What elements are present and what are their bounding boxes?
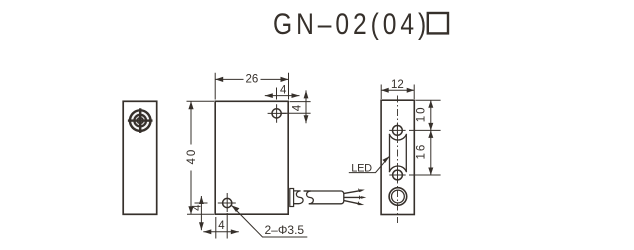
dim 4 left line with outward arrows [199, 196, 204, 230]
LED leader line [349, 156, 390, 172]
svg-text:LED: LED [351, 162, 372, 174]
right (rear) view body outline [381, 100, 414, 214]
cable strain relief S-curves [294, 191, 314, 204]
svg-text:12: 12 [391, 79, 404, 91]
sensing face symbol [128, 108, 153, 133]
dim 40 line with arrows (broken for text) [188, 101, 193, 214]
dim 10 extension lines [409, 100, 441, 130]
dim 26 extension lines [215, 73, 288, 100]
cable gland collar [290, 189, 294, 207]
dim 4 (left, hole to bottom) extension line [195, 202, 208, 204]
top-right mounting hole [272, 109, 281, 118]
left (front) view body outline [123, 101, 157, 214]
dim 12 extension lines [381, 85, 414, 100]
title open square suffix [428, 13, 448, 33]
svg-text:4: 4 [218, 220, 225, 232]
bottom-left hole crosshair [218, 193, 236, 212]
dim 16 extension line [409, 174, 441, 176]
leader 2-phi3.5 arrow and line [232, 205, 308, 237]
dim 16 line with arrows [428, 130, 433, 175]
top-right hole crosshair [268, 104, 287, 123]
svg-text:GN–02(04): GN–02(04) [273, 7, 430, 41]
dim 4 (bottom, left edge to hole) extension lines [216, 213, 227, 239]
slot top hole [393, 125, 403, 135]
svg-text:40: 40 [186, 148, 198, 165]
LED slot right wall [405, 135, 407, 171]
center line (dash-dot) [397, 96, 399, 224]
dim 4 right line with outward arrows [304, 90, 309, 123]
svg-text:26: 26 [246, 74, 259, 86]
dim 4 (right, top edge to hole) extension lines [282, 102, 311, 114]
svg-text:4: 4 [192, 204, 204, 211]
svg-text:4: 4 [291, 104, 303, 111]
middle (side) view body outline [215, 101, 288, 214]
LED slot bottom concave arc [389, 166, 406, 172]
slot bottom hole crosshair [389, 168, 405, 182]
slot bottom hole [393, 170, 403, 180]
rear big hole outer [389, 188, 407, 206]
svg-text:10: 10 [416, 106, 428, 123]
dim 12 line with arrows [381, 88, 414, 93]
dim 4 bottom line with outward arrows [203, 229, 239, 234]
cable body [304, 191, 344, 204]
svg-text:4: 4 [280, 84, 287, 96]
dim 4 (top, hole to right edge) extension line [276, 88, 278, 100]
rear big hole inner [392, 190, 405, 203]
slot top hole crosshair [389, 123, 405, 137]
bottom-left mounting hole [223, 198, 232, 207]
svg-text:2–Φ3.5: 2–Φ3.5 [265, 223, 305, 237]
cable wires [344, 189, 366, 205]
LED slot top concave arc [389, 134, 406, 140]
LED slot left wall [389, 135, 391, 171]
dim 4 top line with outward arrows [265, 93, 300, 98]
dim 10 line with arrows [428, 100, 433, 130]
dim 40 extension lines [187, 101, 215, 214]
svg-text:16: 16 [416, 143, 428, 160]
dim 26 line with arrows [215, 77, 288, 82]
